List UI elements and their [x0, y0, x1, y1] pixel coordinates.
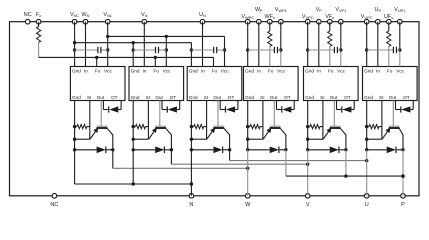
- svg-text:UN: UN: [199, 12, 206, 18]
- terminal N (bottom pin): [189, 194, 194, 208]
- svg-text:Gnd: Gnd: [305, 95, 314, 100]
- svg-text:Out: Out: [270, 95, 278, 100]
- resistor R5g (gate-emitter, V high-side): [308, 125, 323, 129]
- wire Vcc bus (VN1 to U2,U3 Vcc): [108, 35, 227, 67]
- resistor RWF (WFO series): [268, 22, 272, 67]
- wire emitter to rail (U high-side): [365, 125, 382, 141]
- svg-text:Fo: Fo: [95, 69, 101, 74]
- transistor Q1 (IGBT, W low-side): [90, 126, 113, 139]
- svg-text:N: N: [189, 202, 193, 208]
- wire SI pin vertical (V low-side): [147, 101, 149, 140]
- svg-text:VP: VP: [316, 7, 323, 13]
- wire Out gate line (V high-side): [333, 101, 335, 127]
- svg-text:Gnd: Gnd: [364, 95, 373, 100]
- svg-text:OT: OT: [403, 95, 410, 100]
- terminal VWP1 (top pin): [275, 7, 287, 24]
- svg-text:SI: SI: [260, 95, 264, 100]
- wire collector of Q4 to P bus: [285, 135, 287, 177]
- wire collector of Q5 to P bus: [345, 135, 347, 177]
- transistor Q6 (IGBT, U high-side): [382, 126, 403, 139]
- svg-text:Out: Out: [155, 95, 163, 100]
- wire emitter to rail (W low-side): [73, 125, 90, 141]
- svg-text:Fo: Fo: [387, 69, 393, 74]
- diode D5a (OT clamp, V high-side): [337, 101, 355, 113]
- capacitor C3 (Vcc-Gnd decoupling): [191, 47, 224, 53]
- terminal VP (top pin): [316, 7, 323, 24]
- wire SI pin vertical (U low-side): [206, 101, 208, 140]
- svg-text:VWPC: VWPC: [241, 14, 254, 20]
- wire emitter to rail (V low-side): [132, 125, 149, 141]
- wire emitter rail to V terminal (V high-side): [307, 101, 309, 196]
- svg-text:In: In: [201, 69, 205, 74]
- capacitor C2 (Vcc-Gnd decoupling): [133, 47, 166, 53]
- terminal VVPC (top pin): [302, 14, 314, 24]
- svg-text:Out: Out: [389, 95, 397, 100]
- svg-text:In: In: [317, 69, 321, 74]
- svg-text:Gnd: Gnd: [364, 69, 373, 74]
- svg-text:NC: NC: [24, 12, 32, 18]
- wire Out gate line (W low-side): [100, 101, 102, 127]
- svg-text:V: V: [306, 202, 310, 208]
- svg-text:Gnd: Gnd: [72, 95, 81, 100]
- wire VUPC vertical to Gnd: [365, 22, 368, 67]
- capacitor CVP (VVP1-VVPC decoupling): [308, 47, 341, 53]
- terminal WP (top pin): [255, 7, 263, 24]
- capacitor C1 (Vcc-Gnd decoupling): [75, 47, 108, 53]
- package case outline: [10, 22, 420, 196]
- svg-text:WFo: WFo: [265, 14, 276, 20]
- svg-text:VN: VN: [141, 12, 148, 18]
- wire Out gate line (U low-side): [217, 101, 219, 127]
- svg-text:Out: Out: [330, 95, 338, 100]
- svg-text:W: W: [245, 202, 251, 208]
- svg-text:Fo: Fo: [268, 69, 274, 74]
- wire VN1 vertical to U1 Vcc: [106, 22, 109, 67]
- gate driver IC U6 (Gnd In Fo Vcc / Gnd SI Out OT): [363, 67, 418, 101]
- terminal WN (top pin): [82, 12, 90, 24]
- terminal VVP1 (top pin): [335, 7, 346, 24]
- terminal WFo (top pin): [265, 14, 276, 24]
- terminal VN (top pin): [141, 12, 148, 24]
- wire VP vertical to In: [318, 22, 320, 67]
- terminal V (bottom pin): [305, 194, 310, 208]
- wire emitter to rail (V high-side): [306, 125, 323, 141]
- svg-text:NC: NC: [50, 202, 58, 208]
- svg-text:VFo: VFo: [325, 14, 334, 20]
- wire emitter rail to W terminal (W high-side): [247, 101, 249, 196]
- wire collector of Q2 to V node: [171, 135, 309, 166]
- diode D1 (freewheel, W low-side): [73, 147, 115, 154]
- svg-text:SI: SI: [204, 95, 208, 100]
- svg-text:Gnd: Gnd: [131, 95, 140, 100]
- svg-text:WN: WN: [82, 12, 90, 18]
- transistor Q3 (IGBT, U low-side): [207, 126, 230, 139]
- wire emitter rail (V low-side): [132, 101, 134, 185]
- diode D2a (OT clamp, V low-side): [162, 101, 180, 113]
- svg-text:SI: SI: [146, 95, 150, 100]
- terminal Fo (top pin): [36, 12, 41, 24]
- svg-text:OT: OT: [111, 95, 118, 100]
- svg-text:Gnd: Gnd: [245, 69, 254, 74]
- resistor R1g (gate-emitter, W low-side): [75, 125, 90, 129]
- terminal UN (top pin): [199, 12, 206, 24]
- resistor R4g (gate-emitter, W high-side): [248, 125, 263, 129]
- diode D3a (OT clamp, U low-side): [220, 101, 238, 113]
- svg-text:Gnd: Gnd: [131, 69, 140, 74]
- svg-text:Vcc: Vcc: [221, 69, 229, 74]
- wire UN vertical to U3 In: [202, 22, 204, 67]
- svg-text:In: In: [143, 69, 147, 74]
- svg-text:SI: SI: [87, 95, 91, 100]
- wire Fo bus (to U1,U2,U3 Fo): [39, 56, 214, 67]
- svg-text:OT: OT: [284, 95, 291, 100]
- gate driver IC U2 (Gnd In Fo Vcc / Gnd SI Out OT): [129, 67, 184, 101]
- terminal UFo (top pin): [384, 14, 393, 24]
- svg-text:VVPC: VVPC: [302, 14, 314, 20]
- terminal VWPC (top pin): [241, 14, 254, 24]
- terminal P (bottom pin): [401, 194, 406, 208]
- resistor R1 (Fo pull-up): [37, 22, 41, 58]
- diode D6 (freewheel, U high-side): [365, 147, 405, 154]
- wire VNC vertical to U1 Gnd: [73, 22, 76, 67]
- diode D3 (freewheel, U low-side): [190, 147, 232, 154]
- gate driver IC U3 (Gnd In Fo Vcc / Gnd SI Out OT): [187, 67, 242, 101]
- terminal NC (top pin): [24, 12, 32, 24]
- svg-text:Out: Out: [213, 95, 221, 100]
- svg-text:UP: UP: [375, 7, 382, 13]
- wire rail to N (U low-side): [190, 101, 193, 196]
- svg-text:In: In: [84, 69, 88, 74]
- wire VVPC vertical to Gnd: [306, 22, 309, 67]
- wire emitter rail (W low-side): [74, 101, 76, 185]
- wire cell2 rail join: [190, 182, 193, 185]
- svg-text:U: U: [365, 202, 369, 208]
- transistor Q4 (IGBT, W high-side): [263, 126, 286, 139]
- svg-text:WP: WP: [255, 7, 263, 13]
- svg-text:Fo: Fo: [328, 69, 334, 74]
- svg-text:Fo: Fo: [153, 69, 159, 74]
- wire WN vertical to U1 In: [85, 22, 87, 67]
- svg-text:Gnd: Gnd: [189, 95, 198, 100]
- svg-text:VWP1: VWP1: [275, 7, 287, 13]
- diode D5 (freewheel, V high-side): [306, 147, 348, 154]
- svg-text:Vcc: Vcc: [337, 69, 345, 74]
- wire emitter to rail (U low-side): [190, 125, 207, 141]
- wire Out gate line (U high-side): [392, 101, 394, 127]
- wire VVP1 vertical to Vcc: [339, 22, 342, 67]
- wire emitter rail to U terminal (U high-side): [366, 101, 368, 196]
- terminal U (bottom pin): [364, 194, 369, 208]
- wire collector of Q1 to W node: [113, 135, 250, 171]
- wire Out gate line (V low-side): [159, 101, 161, 127]
- svg-text:P: P: [401, 202, 405, 208]
- wire SI pin vertical (W high-side): [262, 101, 264, 140]
- svg-text:Fo: Fo: [36, 12, 41, 18]
- wire WP vertical to In: [258, 22, 260, 67]
- svg-text:Gnd: Gnd: [305, 69, 314, 74]
- diode D6a (OT clamp, U high-side): [396, 101, 414, 113]
- svg-text:Gnd: Gnd: [189, 69, 198, 74]
- diode D1a (OT clamp, W low-side): [103, 101, 121, 113]
- svg-text:VVP1: VVP1: [335, 7, 346, 13]
- svg-text:SI: SI: [320, 95, 324, 100]
- wire P bus (Q4,Q5 collectors to P): [286, 174, 405, 177]
- wire collector of Q3 to U node: [230, 135, 369, 163]
- diode D4a (OT clamp, W high-side): [277, 101, 295, 113]
- svg-text:Vcc: Vcc: [277, 69, 285, 74]
- svg-text:OT: OT: [170, 95, 177, 100]
- resistor R2g (gate-emitter, V low-side): [133, 125, 148, 129]
- svg-text:Gnd: Gnd: [72, 69, 81, 74]
- capacitor CWP (VWP1-VWPC decoupling): [248, 47, 281, 53]
- wire UP vertical to In: [377, 22, 379, 67]
- diode D2 (freewheel, V low-side): [132, 147, 174, 154]
- svg-text:OT: OT: [344, 95, 351, 100]
- wire Out gate line (W high-side): [273, 101, 275, 127]
- wire N emitter bus: [75, 182, 192, 185]
- svg-text:Vcc: Vcc: [163, 69, 171, 74]
- terminal VN1 (top pin): [103, 12, 112, 24]
- terminal UP (top pin): [375, 7, 382, 24]
- terminal NC (bottom pin): [50, 194, 58, 208]
- svg-text:In: In: [376, 69, 380, 74]
- terminal VUP1 (top pin): [394, 7, 405, 24]
- gate driver IC U5 (Gnd In Fo Vcc / Gnd SI Out OT): [304, 67, 359, 101]
- resistor R3g (gate-emitter, U low-side): [191, 125, 206, 129]
- capacitor CUP (VUP1-VUPC decoupling): [367, 47, 400, 53]
- svg-text:Fo: Fo: [212, 69, 218, 74]
- svg-text:UFo: UFo: [384, 14, 393, 20]
- wire VWP1 vertical to Vcc: [279, 22, 282, 67]
- svg-text:VUPC: VUPC: [361, 14, 373, 20]
- wire Gnd bus (VNC to U2,U3 Gnd): [75, 41, 193, 67]
- svg-text:VUP1: VUP1: [394, 7, 405, 13]
- wire SI pin vertical (W low-side): [89, 101, 91, 140]
- wire SI pin vertical (U high-side): [381, 101, 383, 140]
- wire VWPC vertical to Gnd: [246, 22, 249, 67]
- transistor Q5 (IGBT, V high-side): [323, 126, 346, 139]
- terminal VFo (top pin): [325, 14, 334, 24]
- wire SI pin vertical (V high-side): [322, 101, 324, 140]
- resistor R6g (gate-emitter, U high-side): [367, 125, 382, 129]
- resistor RUF (UFO series): [387, 22, 391, 67]
- svg-text:VNC: VNC: [70, 12, 79, 18]
- svg-text:OT: OT: [228, 95, 235, 100]
- diode D4 (freewheel, W high-side): [246, 147, 288, 154]
- svg-text:Out: Out: [97, 95, 105, 100]
- svg-text:Vcc: Vcc: [104, 69, 112, 74]
- svg-text:Vcc: Vcc: [396, 69, 404, 74]
- terminal VUPC (top pin): [361, 14, 373, 24]
- transistor Q2 (IGBT, V low-side): [149, 126, 172, 139]
- wire VN vertical to U2 In: [143, 22, 145, 67]
- wire collector of Q6 to P terminal: [401, 135, 404, 196]
- wire emitter to rail (W high-side): [246, 125, 263, 141]
- gate driver IC U1 (Gnd In Fo Vcc / Gnd SI Out OT): [70, 67, 125, 101]
- svg-text:SI: SI: [379, 95, 383, 100]
- gate driver IC U4 (Gnd In Fo Vcc / Gnd SI Out OT): [244, 67, 299, 101]
- svg-text:In: In: [257, 69, 261, 74]
- svg-text:VN1: VN1: [103, 12, 112, 18]
- svg-text:Gnd: Gnd: [245, 95, 254, 100]
- wire VUP1 vertical to Vcc: [398, 22, 401, 67]
- resistor RVF (VFO series): [328, 22, 332, 67]
- terminal VNC (top pin): [70, 12, 79, 24]
- terminal W (bottom pin): [245, 194, 251, 208]
